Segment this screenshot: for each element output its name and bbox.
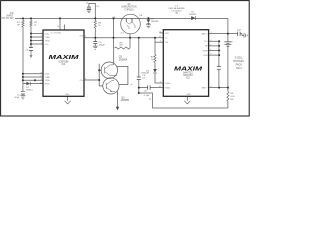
svg-text:6.5V TO 15V: 6.5V TO 15V [0, 18, 14, 20]
svg-text:CTX100-4: CTX100-4 [172, 10, 183, 12]
svg-text:THRb: THRb [45, 77, 50, 79]
svg-text:V+ TGa RSa: V+ TGa RSa [51, 33, 63, 35]
svg-text:1N914: 1N914 [26, 90, 33, 92]
svg-text:THI: THI [165, 42, 169, 44]
svg-text:VLIM: VLIM [203, 55, 208, 57]
svg-text:RSTb: RSTb [45, 83, 50, 85]
svg-text:TEMP: TEMP [202, 50, 208, 52]
svg-text:TRGb: TRGb [45, 80, 50, 82]
svg-text:GND: GND [65, 94, 70, 96]
svg-text:2N3904: 2N3904 [119, 58, 128, 61]
svg-text:IC2: IC2 [186, 77, 190, 80]
svg-text:(TIP102): (TIP102) [125, 9, 134, 11]
svg-text:DISb: DISb [45, 74, 49, 76]
svg-text:THI: THI [205, 46, 209, 48]
svg-text:5-CELL: 5-CELL [235, 56, 244, 59]
svg-text:1N4001: 1N4001 [189, 14, 197, 16]
svg-text:10μF: 10μF [14, 97, 20, 99]
svg-text:2N3055: 2N3055 [121, 99, 130, 102]
svg-text:BATTERY: BATTERY [233, 60, 244, 63]
svg-text:DC: DC [10, 13, 14, 15]
svg-text:1M: 1M [17, 24, 20, 26]
svg-text:PACK: PACK [236, 63, 243, 66]
svg-text:GND: GND [186, 94, 191, 96]
svg-text:TLO: TLO [204, 41, 208, 43]
svg-text:NiCd: NiCd [236, 67, 242, 70]
svg-text:1N4148: 1N4148 [141, 73, 149, 75]
svg-text:1N4148: 1N4148 [151, 21, 159, 23]
svg-text:INPUT: INPUT [7, 16, 14, 18]
svg-text:100μF: 100μF [99, 44, 106, 46]
svg-text:OTb: OTb [79, 36, 83, 38]
svg-text:Ie: Ie [131, 84, 133, 86]
svg-text:1μF: 1μF [237, 29, 241, 31]
svg-text:0.1μF: 0.1μF [144, 95, 150, 97]
svg-text:PGM0: PGM0 [165, 83, 170, 85]
svg-text:MAXIM: MAXIM [49, 55, 79, 61]
svg-text:IC1: IC1 [62, 63, 66, 66]
svg-text:PGM1: PGM1 [165, 87, 170, 89]
